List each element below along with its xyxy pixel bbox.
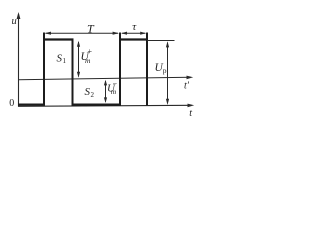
dimension arrow Um- [105, 81, 107, 102]
wire: pulse 2 rising edge (extends up to dimension line) [119, 33, 121, 106]
svg-text:t: t [189, 108, 192, 119]
svg-text:+: + [88, 47, 93, 56]
svg-text:m: m [111, 87, 117, 96]
u axis [18, 14, 20, 107]
wire: waveform low segment 2 [72, 103, 122, 105]
t' axis (shifted zero line) [18, 77, 191, 80]
t axis [18, 105, 192, 106]
wire: pulse 1 falling edge [72, 39, 74, 106]
dimension arrow Up (pulse amplitude) [167, 43, 169, 104]
svg-text:u: u [12, 16, 17, 27]
svg-text:t′: t′ [184, 81, 190, 92]
wire: pulse 1 top [43, 38, 74, 40]
dimension arrow Um+ [78, 42, 80, 77]
wire: pulse 1 rising edge (extends up to dimension line) [43, 33, 45, 106]
svg-text:m: m [85, 56, 91, 65]
svg-text:p: p [163, 66, 167, 75]
dimension arrow tau (pulse width) [122, 32, 146, 34]
extension line for Up dimension [147, 40, 175, 42]
wire: pulse 2 top [119, 38, 148, 40]
wire: pulse 2 falling edge (extends up to dimension line) [146, 33, 148, 106]
svg-text:0: 0 [9, 98, 14, 109]
wire: waveform low segment 1 [18, 103, 45, 105]
svg-text:1: 1 [63, 57, 67, 65]
svg-text:2: 2 [91, 91, 95, 99]
dimension arrow T (period) [46, 32, 119, 34]
